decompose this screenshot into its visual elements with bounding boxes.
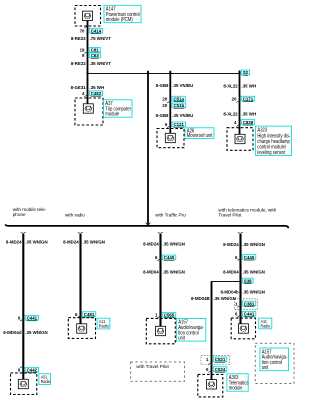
svg-text:70: 70	[80, 28, 85, 33]
wire to moonroof unit A26	[169, 71, 171, 134]
svg-text:control module/: control module/	[257, 144, 286, 149]
pin tick top of telematics wire	[238, 232, 243, 234]
svg-text:charge headlamp: charge headlamp	[257, 139, 290, 144]
module icon A37	[83, 104, 93, 113]
svg-text:leveling sensor: leveling sensor	[257, 150, 285, 155]
module A323 headlamp control module dashed outline	[227, 128, 253, 151]
connector C482	[89, 91, 103, 96]
label A323 High intensity discharge headlamp control module/leveling sensor	[256, 126, 292, 156]
module icon A51	[18, 379, 28, 388]
svg-text:C565: C565	[164, 312, 175, 317]
svg-text:C171: C171	[243, 96, 254, 101]
wire label 8-XL22 .35 WH lower	[223, 111, 256, 116]
connector C445 right	[242, 255, 256, 260]
connector C565	[162, 312, 176, 317]
bus wire across page	[5, 225, 288, 229]
svg-text:9: 9	[82, 53, 85, 58]
connector C51a	[172, 96, 186, 101]
svg-text:8-GB8: 8-GB8	[156, 113, 169, 118]
svg-text:1: 1	[155, 312, 158, 317]
label A147 Powertrain control module (PCM)	[104, 5, 141, 22]
connector C414	[89, 28, 103, 33]
svg-text:8-MD04: 8-MD04	[223, 269, 239, 274]
svg-text:8-MD04B: 8-MD04B	[191, 296, 210, 301]
wire to radio A11 right	[239, 234, 241, 324]
section label with Traffic Pro	[155, 213, 186, 219]
svg-text:module: module	[229, 385, 243, 390]
svg-text:6: 6	[235, 311, 238, 316]
wire from PCM A147 down to trip computer A37	[87, 20, 89, 104]
svg-text:.35 WH: .35 WH	[242, 83, 257, 88]
pin tick above C414	[84, 26, 87, 28]
pin tick at C524	[208, 371, 211, 373]
region box A157 audio navigation option	[255, 343, 294, 383]
pin tick below C521	[208, 363, 211, 365]
connector C481	[82, 312, 96, 317]
svg-text:.35 VN/BU: .35 VN/BU	[172, 83, 194, 88]
module icon A26	[165, 133, 175, 142]
label A37 Trip computer module	[104, 100, 133, 117]
svg-text:C481: C481	[84, 312, 95, 317]
svg-text:.35 VN/BU: .35 VN/BU	[172, 113, 194, 118]
pin tick between C51a and C51b	[167, 101, 170, 103]
module icon A11 radio	[77, 324, 87, 333]
svg-text:6: 6	[235, 255, 238, 260]
module A11 Radio dashed outline	[68, 318, 95, 339]
svg-text:8-MD24: 8-MD24	[6, 239, 22, 244]
pin tick at C482	[84, 95, 87, 97]
svg-text:.35 WN/VT: .35 WN/VT	[90, 61, 112, 66]
splice S38	[242, 278, 253, 283]
svg-text:with Traffic Pro: with Traffic Pro	[155, 213, 186, 219]
svg-text:8-MD24: 8-MD24	[63, 239, 79, 244]
module A26 Moonroof unit dashed outline	[157, 129, 184, 148]
svg-text:unit: unit	[178, 335, 185, 340]
svg-text:8-RE22: 8-RE22	[71, 36, 86, 41]
region label with Travel Pilot	[136, 364, 169, 370]
connector C171	[241, 96, 255, 101]
svg-text:8-MD04: 8-MD04	[143, 269, 159, 274]
svg-text:C482: C482	[91, 91, 102, 96]
svg-text:C51b: C51b	[174, 103, 185, 108]
connector C441	[25, 315, 38, 320]
pin tick at C445 left	[157, 259, 160, 261]
svg-text:8-RE22: 8-RE22	[71, 61, 86, 66]
connector C51b	[172, 103, 186, 108]
pin tick below C171	[236, 101, 239, 103]
wire label 8-XL22 .35 WH upper	[223, 83, 256, 88]
wire label 8-MD24 .35 WN/GN telematics	[223, 242, 265, 247]
connector C442	[25, 367, 38, 372]
module A147 Powertrain control module (PCM) dashed outline	[75, 6, 101, 27]
section label with radio	[65, 212, 85, 218]
connector C521	[213, 357, 227, 362]
riser wire from branch line down to bus	[147, 71, 149, 226]
svg-text:6: 6	[18, 315, 21, 320]
splice S2	[241, 70, 249, 75]
module icon A157	[156, 326, 166, 335]
wire label 8-MD24 .35 WN/GN phone	[6, 239, 48, 244]
connector C445 left	[162, 255, 176, 260]
junction dot riser at bus	[147, 224, 149, 226]
wire label 8-GE31 .35 WH	[71, 85, 105, 90]
svg-text:C838: C838	[243, 120, 254, 125]
svg-text:S38: S38	[244, 278, 252, 283]
svg-text:6: 6	[75, 312, 78, 317]
wire label 8-MD24 .35 WN/GN traffic pro	[143, 241, 185, 246]
label A157 Audio/navigation control unit	[176, 318, 205, 341]
svg-text:.35 WN/GN: .35 WN/GN	[25, 330, 48, 335]
svg-text:.75 WN/VT: .75 WN/VT	[90, 36, 112, 41]
svg-text:8-GB8: 8-GB8	[156, 83, 169, 88]
svg-text:8-XL22: 8-XL22	[223, 83, 238, 88]
wire label 8-MD24 .35 WN/GN radio	[63, 239, 105, 244]
junction dot at moonroof wire	[169, 72, 171, 74]
connector C441 right	[242, 311, 256, 316]
svg-text:.35 WN/GN: .35 WN/GN	[243, 289, 266, 294]
wire label 8-MD04B .35 WN/GN	[191, 296, 237, 301]
connector C381	[242, 301, 256, 306]
pin tick at C565	[157, 316, 160, 318]
svg-text:C441: C441	[27, 315, 38, 320]
section label with mobile telephone	[13, 207, 47, 218]
section label with telematics module with Travel Pilot	[218, 208, 276, 219]
svg-text:.35 WH: .35 WH	[90, 85, 105, 90]
module icon A147	[83, 11, 93, 20]
wire to radio A11	[79, 234, 81, 324]
module A37 Trip computer dashed outline	[75, 98, 103, 125]
pin tick at C121	[167, 126, 170, 128]
connector C63	[89, 53, 100, 58]
svg-text:.35 WN/GN: .35 WN/GN	[214, 296, 237, 301]
svg-text:4: 4	[234, 120, 237, 125]
svg-text:4: 4	[82, 91, 85, 96]
wire label 8-RE22 .35 WN/VT	[71, 61, 111, 66]
svg-text:20: 20	[162, 103, 167, 108]
junction dot at long riser wire	[147, 72, 149, 74]
region box with Travel Pilot	[131, 362, 185, 381]
junction dot at splice S2	[238, 72, 240, 74]
svg-text:C63: C63	[91, 53, 99, 58]
wire label 8-MD04 .35 WN/GN traffic pro	[143, 269, 185, 274]
label A51 Radio telephone	[39, 374, 51, 385]
svg-text:1: 1	[206, 357, 209, 362]
svg-text:phone: phone	[13, 212, 26, 218]
pin tick at C442	[20, 366, 23, 368]
pin tick top of phone wire	[21, 232, 26, 234]
svg-text:C121: C121	[174, 122, 185, 127]
svg-text:C442: C442	[27, 367, 38, 372]
svg-text:8-MD24: 8-MD24	[143, 241, 159, 246]
module A157 audio navigation dashed outline	[146, 318, 175, 343]
pin tick at C445 right	[237, 258, 240, 260]
branch line from S38 to telematics module wire	[212, 281, 241, 283]
svg-text:6: 6	[18, 367, 21, 372]
connector C524	[213, 367, 227, 372]
svg-text:C51a: C51a	[174, 96, 185, 101]
svg-text:19: 19	[80, 47, 85, 52]
svg-text:.35 WN/GN: .35 WN/GN	[83, 239, 106, 244]
svg-text:C445: C445	[164, 255, 175, 260]
wire label 8-GB8 .35 VN/BU upper	[156, 83, 194, 88]
svg-text:8-MD04b: 8-MD04b	[220, 289, 238, 294]
svg-text:module (PCM): module (PCM)	[106, 17, 133, 22]
svg-text:C81: C81	[91, 47, 99, 52]
pin tick top of traffic pro wire	[158, 232, 163, 234]
svg-text:Radio: Radio	[41, 379, 51, 385]
wire from S38 branch to telematics module A303	[211, 281, 213, 380]
module icon A11 right	[238, 324, 248, 333]
svg-text:.35 WN/GN: .35 WN/GN	[243, 242, 266, 247]
svg-text:module: module	[105, 111, 119, 116]
svg-text:1: 1	[235, 301, 238, 306]
wire label 8-MD04d .35 WN/GN	[3, 330, 48, 335]
module icon A303	[206, 380, 216, 389]
label A26 Moonroof unit	[185, 128, 214, 139]
riser wire foot serif left	[146, 223, 148, 226]
label A303 Telematics module	[227, 374, 249, 391]
svg-text:Travel Pilot: Travel Pilot	[218, 213, 242, 219]
svg-text:C381: C381	[244, 301, 255, 306]
svg-text:20: 20	[162, 96, 167, 101]
dashed frame around connector C381 row	[234, 299, 257, 310]
svg-text:.35 WN/GN: .35 WN/GN	[163, 241, 186, 246]
label A11 Radio right	[259, 318, 272, 329]
svg-text:8-XL22: 8-XL22	[223, 111, 238, 116]
svg-text:6: 6	[206, 367, 209, 372]
svg-text:C441: C441	[244, 311, 255, 316]
svg-text:.35 WN/GN: .35 WN/GN	[25, 239, 48, 244]
svg-text:Radio: Radio	[99, 323, 109, 329]
label A157 Audio/navigation control unit option	[260, 348, 289, 371]
wire label 8-MD04 .35 WN/GN right	[223, 269, 265, 274]
svg-text:8-MD24: 8-MD24	[223, 242, 239, 247]
module A51 phone unit dashed outline	[11, 373, 37, 395]
pin tick at C441	[20, 319, 23, 321]
pin tick at C441 right	[237, 315, 240, 317]
label A11 Radio	[97, 318, 110, 329]
svg-text:C521: C521	[215, 357, 226, 362]
wire to phone unit	[22, 234, 24, 379]
pin tick top of radio wire	[78, 232, 83, 234]
pin tick at C838	[236, 124, 239, 126]
svg-text:Moonroof unit: Moonroof unit	[187, 133, 213, 138]
connector C121	[172, 122, 186, 127]
connector C81	[89, 47, 100, 52]
dashed frame around connector C521 row	[201, 355, 230, 364]
pin tick below C381	[237, 305, 240, 307]
svg-text:C524: C524	[215, 367, 226, 372]
pin tick between C81 and C63	[84, 52, 87, 54]
svg-text:C414: C414	[91, 28, 102, 33]
svg-text:.35 WN/GN: .35 WN/GN	[163, 269, 186, 274]
svg-text:20: 20	[232, 96, 237, 101]
svg-text:8-MD04d: 8-MD04d	[3, 330, 21, 335]
wire label 8-GB8 .35 VN/BU lower	[156, 113, 194, 118]
svg-text:.35 WH: .35 WH	[242, 111, 257, 116]
svg-text:Radio: Radio	[261, 323, 271, 329]
module A11 Radio right dashed outline	[231, 318, 255, 339]
svg-text:with radio: with radio	[65, 212, 85, 218]
module icon A323	[235, 134, 245, 143]
junction dot at splice S38	[239, 280, 241, 282]
wire from splice S2 to headlamp module A323	[239, 71, 241, 136]
riser wire foot serif right	[148, 223, 150, 226]
wire label 8-MD04b .35 WN/GN	[220, 289, 265, 294]
svg-text:6: 6	[155, 255, 158, 260]
svg-text:6: 6	[165, 122, 168, 127]
svg-text:unit: unit	[262, 365, 269, 370]
svg-text:S2: S2	[243, 70, 249, 75]
connector C838	[241, 120, 255, 125]
junction dot at PCM wire	[86, 72, 88, 74]
horizontal branch line at node of PCM wire	[88, 73, 240, 75]
svg-text:C445: C445	[244, 255, 255, 260]
svg-text:with Travel Pilot: with Travel Pilot	[136, 364, 169, 370]
pin tick at C481	[77, 316, 80, 318]
wire label 8-RE22 .75 WN/VT	[71, 36, 111, 41]
svg-text:A323: A323	[257, 127, 267, 132]
svg-text:High intensity dis-: High intensity dis-	[257, 133, 291, 138]
svg-text:8-GE31: 8-GE31	[71, 85, 86, 90]
module A303 Telematics module dashed outline	[198, 374, 223, 397]
svg-text:.35 WN/GN: .35 WN/GN	[243, 269, 266, 274]
wire to audio/navigation unit A157	[159, 234, 161, 326]
